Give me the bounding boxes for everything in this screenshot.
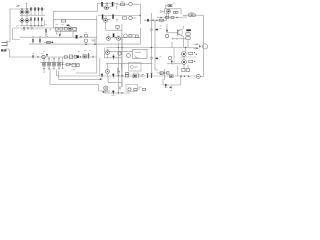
- input stage box: [165, 9, 182, 14]
- capacitor C3: [123, 17, 127, 19]
- resistor R12: [102, 14, 104, 18]
- wire y82.6 stub: [108, 76, 122, 87]
- wire row2 rail: [98, 15, 141, 17]
- resistor box E: [84, 35, 87, 37]
- wire base lower: [167, 63, 182, 65]
- capacitor C4: [168, 5, 172, 7]
- resistor bank row2: [30, 17, 42, 26]
- diode D5: [113, 54, 115, 60]
- wire bottom rail long: [29, 43, 140, 45]
- resistor R14 box: [160, 19, 164, 21]
- wire row1 rail: [98, 2, 119, 4]
- capacitor on bus y29: [150, 29, 152, 31]
- wire supply drop: [26, 3, 28, 9]
- wire drops from comb: [44, 68, 110, 91]
- diode D2: [171, 60, 173, 64]
- resistor R6 vertical: [32, 38, 34, 44]
- wire lower stub: [172, 38, 186, 40]
- wire mid rail: [20, 14, 45, 16]
- resistor box A: [55, 28, 58, 31]
- wire rail y47: [106, 47, 198, 49]
- wire right drops: [76, 48, 105, 77]
- node +V supply label: [17, 5, 21, 7]
- label gamma: [116, 6, 118, 9]
- node junction dots top rail: [21, 8, 42, 9]
- wire left driver: [160, 56, 162, 58]
- wire input feed line: [183, 15, 204, 76]
- transistor Q1: [20, 10, 24, 14]
- wire row1 right: [116, 3, 129, 5]
- wire mid bus x97: [96, 20, 98, 73]
- wire bus x140: [139, 28, 141, 44]
- wire lower rail: [20, 25, 45, 27]
- wire base: [168, 32, 178, 34]
- wire rail y36.8: [20, 36, 97, 38]
- resistor R5 vertical: [45, 28, 47, 37]
- resistor R15 box: [189, 14, 192, 16]
- transistor Q2: [25, 10, 29, 14]
- speaker terminal: [2, 41, 8, 47]
- diode D3: [165, 84, 167, 88]
- transistor Q7: [105, 16, 107, 19]
- wire y43.5 details: [85, 44, 96, 46]
- transistor Q3: [20, 19, 24, 23]
- capacitor C1 small box: [62, 20, 66, 22]
- component row y37 right: [124, 34, 128, 38]
- wire rail y51: [106, 50, 132, 52]
- wire hline y30: [106, 29, 122, 31]
- wire left bus: [7, 9, 10, 42]
- trimmer: [88, 53, 90, 59]
- resistor box B: [60, 28, 63, 31]
- capacitor small box: [116, 26, 119, 29]
- wire long top feed 2: [54, 16, 97, 20]
- wire cluster lower line: [55, 28, 77, 32]
- capacitor on bus y58: [150, 57, 152, 59]
- comb ladder: [40, 62, 64, 64]
- diode D8: [59, 34, 61, 37]
- capacitor C2: [121, 3, 125, 6]
- wire output branch: [45, 11, 55, 28]
- transistor Q16: [68, 27, 72, 31]
- label gamma2: [116, 19, 118, 22]
- row y88 right: [120, 86, 121, 89]
- transistor Q4: [25, 19, 29, 23]
- wire row1: [20, 9, 31, 15]
- component small q: [32, 55, 34, 59]
- resistor R10: [101, 2, 103, 7]
- wire long mid bus x151: [150, 13, 152, 74]
- wire long top feed 1: [54, 3, 98, 11]
- diode D6a: [101, 73, 103, 78]
- diode D9 dark: [76, 35, 78, 39]
- wire left bus 2: [13, 28, 21, 40]
- diode D7: [112, 90, 114, 94]
- resistor pair: [174, 11, 176, 13]
- wire bottom line y93: [104, 92, 130, 94]
- diode D4 arrow: [170, 86, 172, 88]
- relay box: [133, 50, 148, 59]
- ground stubs: [56, 32, 61, 34]
- wire long bias rail y76: [57, 75, 197, 77]
- bias rail y76 components: [107, 74, 109, 76]
- resistor bank row1: [30, 7, 42, 15]
- wire to bus: [132, 4, 140, 24]
- wire from terminal: [5, 49, 97, 57]
- capacitor C5: [170, 75, 173, 78]
- input jack circle: [196, 74, 200, 78]
- component row y37: [107, 37, 111, 41]
- wire comb top small text: [43, 51, 45, 53]
- diode D1: [166, 24, 168, 33]
- transistor Q8 small: [129, 16, 133, 20]
- wire lower loop: [59, 78, 101, 80]
- resistor pair boxes: [182, 69, 185, 72]
- transistor Q5: [106, 3, 108, 6]
- wire row2: [20, 15, 31, 26]
- resistor R7 vertical: [39, 38, 41, 44]
- resistor R11: [112, 2, 114, 7]
- wire bus x122: [121, 24, 123, 87]
- transistor Q13: [107, 63, 109, 69]
- transistor Q15 small: [42, 55, 45, 58]
- transistor Q12: [182, 60, 187, 65]
- label marks: [32, 29, 51, 37]
- wire row3 bias line: [144, 19, 167, 21]
- transistor Q9: [167, 9, 171, 13]
- wire bus x155: [155, 20, 159, 70]
- wire buses vertical: [118, 34, 122, 94]
- wire right riser: [166, 13, 168, 21]
- wire column links: [184, 56, 188, 68]
- transistor Q6 small: [129, 2, 133, 6]
- wire lower input rail: [157, 17, 183, 19]
- label LS: [1, 49, 6, 51]
- components on y57 rail right: [64, 56, 67, 58]
- transistor Q11: [182, 52, 187, 57]
- resistor dark bar: [186, 29, 191, 31]
- transistor Q10: [178, 30, 183, 35]
- wire emitter drop Q7: [105, 22, 107, 30]
- resistor box D: [73, 27, 76, 30]
- mid row boxes y64: [60, 63, 80, 65]
- connector pins: [148, 74, 152, 78]
- flag box: [133, 74, 137, 78]
- label small: [16, 25, 19, 28]
- labels: [56, 24, 69, 27]
- wire right vert to ground row: [163, 77, 181, 85]
- resistor R8 horizontal: [44, 41, 54, 43]
- resistor boxes column: [186, 33, 190, 35]
- wire top rail: [10, 8, 45, 10]
- resistor R13: [112, 14, 114, 18]
- diode D6: [112, 73, 114, 78]
- wire mid horizontal rail: [13, 27, 77, 29]
- wire y73: [157, 72, 169, 74]
- resistor comb bodies: [43, 62, 61, 66]
- transistor Q14: [104, 86, 108, 90]
- resistor box C: [64, 27, 67, 30]
- wire hline y63.4 long: [106, 62, 152, 64]
- row y52-58: [106, 51, 110, 55]
